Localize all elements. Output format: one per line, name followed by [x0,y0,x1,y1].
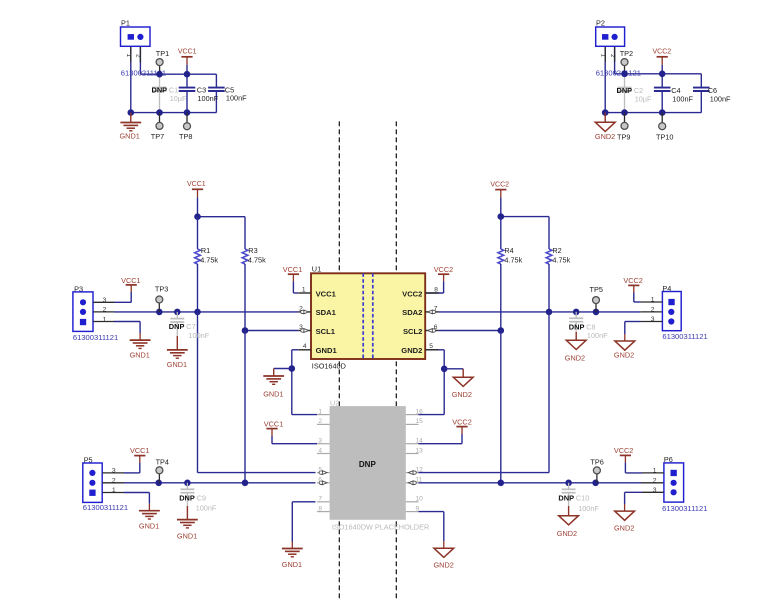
svg-text:C8: C8 [586,322,595,331]
svg-text:12: 12 [416,466,424,473]
svg-text:TP3: TP3 [155,285,168,294]
part number label 61300211121 of P1 [121,68,166,77]
capacitor C10 (DNP) [562,483,576,506]
capacitor C1 (DNP) [153,74,167,112]
label DNP for C2 [617,86,633,95]
junction bottom rail at C3 [184,109,191,116]
designator R3 [248,246,257,255]
chip U2 ISO1640DW placeholder body [330,406,406,520]
wire SDA2 net [439,311,663,313]
svg-text:100nF: 100nF [578,504,599,513]
junction top rail at VCC2/C4 [659,71,666,78]
designator C5 [225,85,234,94]
svg-text:TP9: TP9 [617,132,630,141]
ground GND2 at P4 [614,341,635,360]
svg-text:SDA1: SDA1 [316,308,337,317]
capacitor C2 (DNP) [618,74,632,112]
label DNP for C8 [569,322,585,331]
svg-text:4.75k: 4.75k [504,255,522,264]
wire P1 pin2 to top rail [139,46,141,74]
svg-text:61300311121: 61300311121 [662,504,707,513]
ground GND1 under U2 pin7 [282,549,303,570]
wire U1 pin1 VCC1 [293,274,298,293]
svg-text:SCL2: SCL2 [403,327,422,336]
designator C9 [197,493,206,502]
svg-text:VCC1: VCC1 [121,276,140,285]
U2 pin 13 [406,447,423,454]
part name ISO1640D [312,362,346,371]
wire R2 drop to U2 pin12 [419,312,550,473]
U2 pin 3 [317,438,330,445]
junction GND2 branch [441,366,448,373]
svg-text:4.75k: 4.75k [200,255,218,264]
U1 pin 4 GND1 [298,343,337,355]
svg-text:GND1: GND1 [130,350,150,359]
svg-text:100nF: 100nF [226,94,247,103]
pin number 2 of P6 [653,478,657,485]
svg-text:2: 2 [318,418,322,425]
pin number 3 of P6 [653,487,657,494]
power symbol VCC2 mid-right [490,181,509,216]
power symbol VCC2 at P6 [614,446,633,455]
svg-text:VCC2: VCC2 [452,417,471,426]
U2 pin 15 [406,418,423,425]
power symbol VCC1 at P5 [130,446,149,456]
svg-text:2: 2 [653,478,657,485]
svg-text:3: 3 [299,324,303,331]
junction bottom line at R4 drop [498,480,505,487]
connector P4 [662,284,681,331]
wire bottom rail GND1 net [131,112,217,114]
ground GND2 under C8 [565,332,586,363]
value 100nF for C9 [196,504,217,513]
svg-text:61300311121: 61300311121 [83,503,128,512]
svg-text:13: 13 [416,447,424,454]
svg-text:TP10: TP10 [656,132,673,141]
wire bottom SCL1 long line [124,482,316,484]
svg-text:C9: C9 [197,493,206,502]
designator R4 [504,246,513,255]
pin number 2 of P1 (rotated) [135,54,142,58]
svg-text:1: 1 [600,54,607,58]
wire R3 drop to bottom line [244,331,246,483]
svg-text:ISO1640D: ISO1640D [312,362,346,371]
wire VCC1 to U2 pin3 [272,436,317,444]
ground GND1 under C7 [167,336,188,369]
connector P6 [664,455,684,502]
svg-text:DNP: DNP [359,460,377,469]
value 100nF for C5 [226,94,247,103]
test point TP7 [151,113,164,141]
pin number 2 of P3 [103,307,107,314]
svg-text:9: 9 [416,505,420,512]
op-amp U1 ISO1640D body [311,273,425,359]
U2 pin 9 [406,505,420,512]
resistor R4 4.75k [498,217,504,331]
designator U1 [312,265,321,274]
U2 pin 12 [406,466,423,474]
value 10uF for C1 [170,94,187,103]
ground GND1 top-left [120,113,142,141]
junction bottom rail at P2 pin1 [602,109,609,116]
value 100nF for C6 [710,95,731,104]
svg-text:2: 2 [135,54,142,58]
ground GND2 center (U1 pin5) [452,369,473,399]
wire GND2 branch stub [444,368,463,370]
svg-text:P1: P1 [121,18,130,27]
svg-text:GND1: GND1 [316,346,338,355]
svg-text:DNP: DNP [169,322,185,331]
svg-text:C4: C4 [671,86,680,95]
wire SCL1 net [245,330,298,332]
svg-text:3: 3 [318,438,322,445]
svg-text:U1: U1 [312,265,321,274]
svg-text:16: 16 [416,408,424,415]
svg-text:1: 1 [318,408,322,415]
U1 pin 8 VCC2 [402,287,439,299]
designator R2 [552,246,561,255]
svg-text:VCC2: VCC2 [434,265,453,274]
U2 pin 4 [317,447,330,454]
svg-text:GND1: GND1 [282,560,302,569]
part number label 61300211121 of P2 [596,68,641,77]
junction VCC1 rail at R1 [194,213,201,220]
capacitor C5 [208,88,225,91]
svg-text:61300311121: 61300311121 [73,333,118,342]
pin number 1 of P4 [651,297,655,304]
svg-text:U2: U2 [330,398,339,407]
junction top rail at TP2 [621,71,628,78]
pin number 1 of P5 [112,487,116,494]
designator C7 [186,322,195,331]
power symbol VCC1 at P3 [121,276,140,285]
test point TP4 [156,457,169,482]
svg-text:61300311121: 61300311121 [662,332,707,341]
svg-text:VCC1: VCC1 [130,446,149,455]
connector P3 [73,284,93,331]
wire P5 pin3 to VCC1 [102,456,140,473]
wire U2 pin9 to GND2 [419,512,444,549]
wire P3 pin1 to GND1 [93,322,140,341]
svg-text:3: 3 [103,297,107,304]
svg-text:100nF: 100nF [198,94,219,103]
power symbol VCC1 top-left [178,49,197,75]
power symbol VCC2 at P4 [623,276,642,285]
value 100nF for C7 [189,331,210,340]
wire U1 pin8 VCC2 [426,274,444,293]
capacitor C3 [179,74,196,112]
svg-text:GND2: GND2 [401,346,422,355]
svg-text:2: 2 [609,54,616,58]
U1 pin 6 SCL2 [403,324,439,336]
wire SDA1 net [114,311,298,313]
wire U1 pin5 GND2 to U2 pin16 [419,350,445,415]
svg-text:100nF: 100nF [672,95,693,104]
power symbol VCC1 at U2 pin3 [264,419,283,436]
value 4.75k for R2 [552,255,570,264]
ground GND2 under U2 pin9 [434,548,454,569]
svg-text:10: 10 [416,496,424,503]
junction SDA2 at TP5 [593,309,600,316]
junction bottom line at TP6 [592,480,599,487]
svg-text:1: 1 [653,468,657,475]
svg-text:1: 1 [103,316,107,323]
ground GND2 top-right [595,113,615,142]
svg-text:TP1: TP1 [156,49,169,58]
U2 pin 10 [406,496,423,503]
svg-text:R4: R4 [504,246,513,255]
power symbol VCC2 top-right [653,49,672,74]
wire R1 drop to U2 pin5 [198,312,316,473]
svg-text:7: 7 [318,496,322,503]
test point TP9 [617,113,630,142]
svg-text:5: 5 [429,343,433,350]
part number label 61300311121 of P4 [662,332,707,341]
part name ISO1640DW PLACEHOLDER [332,523,429,532]
svg-text:8: 8 [434,287,438,294]
U2 pin 14 [406,438,423,445]
label DNP for C7 [169,322,185,331]
capacitor C9 (DNP) [180,483,194,506]
junction bottom rail at C4 [659,109,666,116]
U2 pin 11 [406,477,423,485]
svg-text:GND1: GND1 [263,390,283,399]
pin number 3 of P5 [112,468,116,475]
test point TP6 [590,458,603,483]
svg-text:R3: R3 [248,246,257,255]
svg-text:100nF: 100nF [710,95,731,104]
power symbol VCC1 mid-left [187,181,206,217]
wire U2 pin7 to GND1 [292,502,315,549]
svg-text:GND1: GND1 [177,532,197,541]
svg-text:2: 2 [299,305,303,312]
designator U2 [330,398,339,407]
svg-text:GND2: GND2 [452,390,472,399]
svg-text:R2: R2 [552,246,561,255]
junction bottom line at R3 drop [242,480,249,487]
pin number 1 of P6 [653,468,657,475]
value 100nF for C10 [578,504,599,513]
U1 pin 5 GND2 [401,343,438,355]
svg-text:DNP: DNP [558,493,574,502]
svg-text:VCC2: VCC2 [623,276,642,285]
wire P1 pin1 to bottom rail [130,46,132,112]
value 100nF for C4 [672,95,693,104]
svg-text:6: 6 [434,324,438,331]
junction GND1 branch [289,365,296,372]
svg-text:SDA2: SDA2 [402,308,422,317]
svg-text:100nF: 100nF [189,331,210,340]
svg-text:R1: R1 [201,246,210,255]
svg-text:P2: P2 [596,18,605,27]
label DNP for C10 [558,493,574,502]
designator C10 [576,493,589,502]
connector P2 [596,18,625,46]
svg-text:4: 4 [318,447,322,454]
svg-text:GND2: GND2 [565,354,585,363]
wire P6 pin1 to VCC2 [625,455,664,473]
svg-text:C1: C1 [169,85,178,94]
svg-text:GND2: GND2 [434,560,454,569]
resistor R2 4.75k [546,217,552,312]
svg-text:1: 1 [125,54,132,58]
wire SCL2 net [439,330,501,332]
svg-text:C6: C6 [708,86,717,95]
designator C6 [708,86,717,95]
U1 pin 1 VCC1 [298,287,336,299]
svg-text:3: 3 [653,487,657,494]
U2 pin 8 [317,505,330,512]
U2 pin 16 [406,408,423,415]
U1 pin 3 SCL1 [298,324,335,336]
svg-text:VCC2: VCC2 [614,446,633,455]
junction top rail at VCC1/C3 [184,71,191,78]
power symbol VCC2 at U2 pin14 [452,417,471,434]
label DNP for U2 [359,460,377,469]
svg-text:VCC1: VCC1 [178,49,197,56]
junction bottom line at TP4 [155,480,162,487]
power symbol VCC1 at U1 pin1 [283,265,302,274]
junction SCL1 at R3 [242,327,249,334]
svg-text:DNP: DNP [569,322,585,331]
svg-text:10µF: 10µF [170,94,187,103]
resistor R1 4.75k [195,217,201,312]
svg-text:TP6: TP6 [590,458,603,467]
svg-text:4.75k: 4.75k [248,255,266,264]
wire P3 pin3 to VCC1 [93,285,131,302]
power symbol VCC2 at U1 pin8 [434,265,453,274]
svg-text:TP5: TP5 [590,285,603,294]
wire P6 pin3 to GND2 [625,492,664,511]
svg-text:SCL1: SCL1 [316,327,336,336]
junction bottom rail at C1 [156,109,163,116]
svg-text:C2: C2 [634,86,643,95]
part number label 61300311121 of P3 [73,333,118,342]
ground GND1 center (U1 pin4) [263,369,284,399]
svg-text:10µF: 10µF [635,95,652,104]
wire P5 pin1 to GND1 [102,493,149,511]
svg-text:6: 6 [318,477,322,484]
wire right loop C6 branch [700,74,702,113]
wire right loop C5 branch [215,74,217,112]
designator C1 [169,85,178,94]
svg-text:4.75k: 4.75k [552,255,570,264]
U2 pin 6 [317,477,330,485]
svg-text:15: 15 [416,418,424,425]
svg-text:GND2: GND2 [557,529,577,538]
wire R4 drop to bottom line [500,331,502,483]
capacitor C4 [654,74,671,113]
designator C8 [586,322,595,331]
test point TP5 [590,285,603,312]
wire VCC2 rail to R2 [501,216,549,218]
junction SDA2 at R2 [546,309,553,316]
U1 pin 2 SDA1 [298,305,336,317]
capacitor C6 [693,88,710,91]
value 10uF for C2 [635,95,652,104]
wire bottom SCL2 long line [419,482,664,484]
pin number 1 of P2 (rotated) [600,54,607,58]
svg-text:DNP: DNP [152,85,168,94]
pin number 1 of P1 (rotated) [125,54,132,58]
junction bottom line at C9 [184,480,191,487]
wire VCC2 to U2 pin14 [419,434,463,444]
wire P5 pin2 black pin [102,482,124,484]
connector P1 [121,18,151,46]
ground GND1 under C9 [177,506,198,541]
U2 pin 2 [317,418,330,425]
svg-text:TP8: TP8 [179,132,192,141]
svg-text:1: 1 [651,297,655,304]
svg-text:61300211121: 61300211121 [596,68,641,77]
svg-text:4: 4 [303,343,307,350]
U1 pin 7 SDA2 [402,305,439,317]
test point TP2 [620,49,633,74]
svg-text:100nF: 100nF [587,331,608,340]
ground GND1 at P3 [130,340,151,359]
svg-text:C3: C3 [197,85,206,94]
page fold dashed line left [338,121,340,598]
wire P4 pin1 to VCC2 [634,285,663,302]
pin number 3 of P3 [103,297,107,304]
svg-text:GND1: GND1 [167,360,187,369]
wire U1 pin4 GND1 to U2 pin1 [292,350,317,415]
junction bottom rail at P1 pin1 [128,109,135,116]
designator C3 [197,85,206,94]
value 4.75k for R4 [504,255,522,264]
svg-text:GND1: GND1 [120,131,140,140]
junction SCL2 at R4 [498,327,505,334]
wire top rail VCC1 net [140,73,216,75]
U2 pin 5 [317,466,330,474]
part number label 61300311121 of P5 [83,503,128,512]
capacitor C7 (DNP) [170,312,184,336]
wire top rail VCC2 net [615,73,702,75]
wire VCC1 rail to R3 [198,216,246,218]
svg-text:14: 14 [416,438,424,445]
U2 pin 7 [317,496,330,503]
junction SDA1 at TP3 [156,309,163,316]
part number label 61300311121 of P6 [662,504,707,513]
svg-text:DNP: DNP [179,493,195,502]
test point TP8 [179,113,192,141]
junction top rail at TP1 [156,71,163,78]
pin number 2 of P4 [651,307,655,314]
ground GND1 at P5 [139,511,160,531]
svg-text:DNP: DNP [617,86,633,95]
value 4.75k for R3 [248,255,266,264]
svg-text:VCC1: VCC1 [283,265,302,274]
svg-text:ISO1640DW PLACEHOLDER: ISO1640DW PLACEHOLDER [332,523,429,532]
svg-text:11: 11 [416,477,423,484]
junction SDA1 at R1 [194,309,201,316]
designator C4 [671,86,680,95]
svg-text:VCC2: VCC2 [490,181,509,188]
wire GND1 branch stub [274,368,292,370]
svg-text:2: 2 [651,307,655,314]
svg-text:VCC2: VCC2 [402,289,422,298]
pin number 2 of P5 [112,477,116,484]
svg-text:VCC2: VCC2 [653,49,672,56]
svg-text:C10: C10 [576,493,589,502]
pin number 1 of P3 [103,316,107,323]
designator R1 [201,246,210,255]
svg-text:VCC1: VCC1 [316,289,337,298]
test point TP1 [156,49,169,74]
wire P2 pin1 to bottom rail [604,46,606,112]
wire P2 pin2 to top rail [614,46,616,74]
pin number 2 of P2 (rotated) [609,54,616,58]
